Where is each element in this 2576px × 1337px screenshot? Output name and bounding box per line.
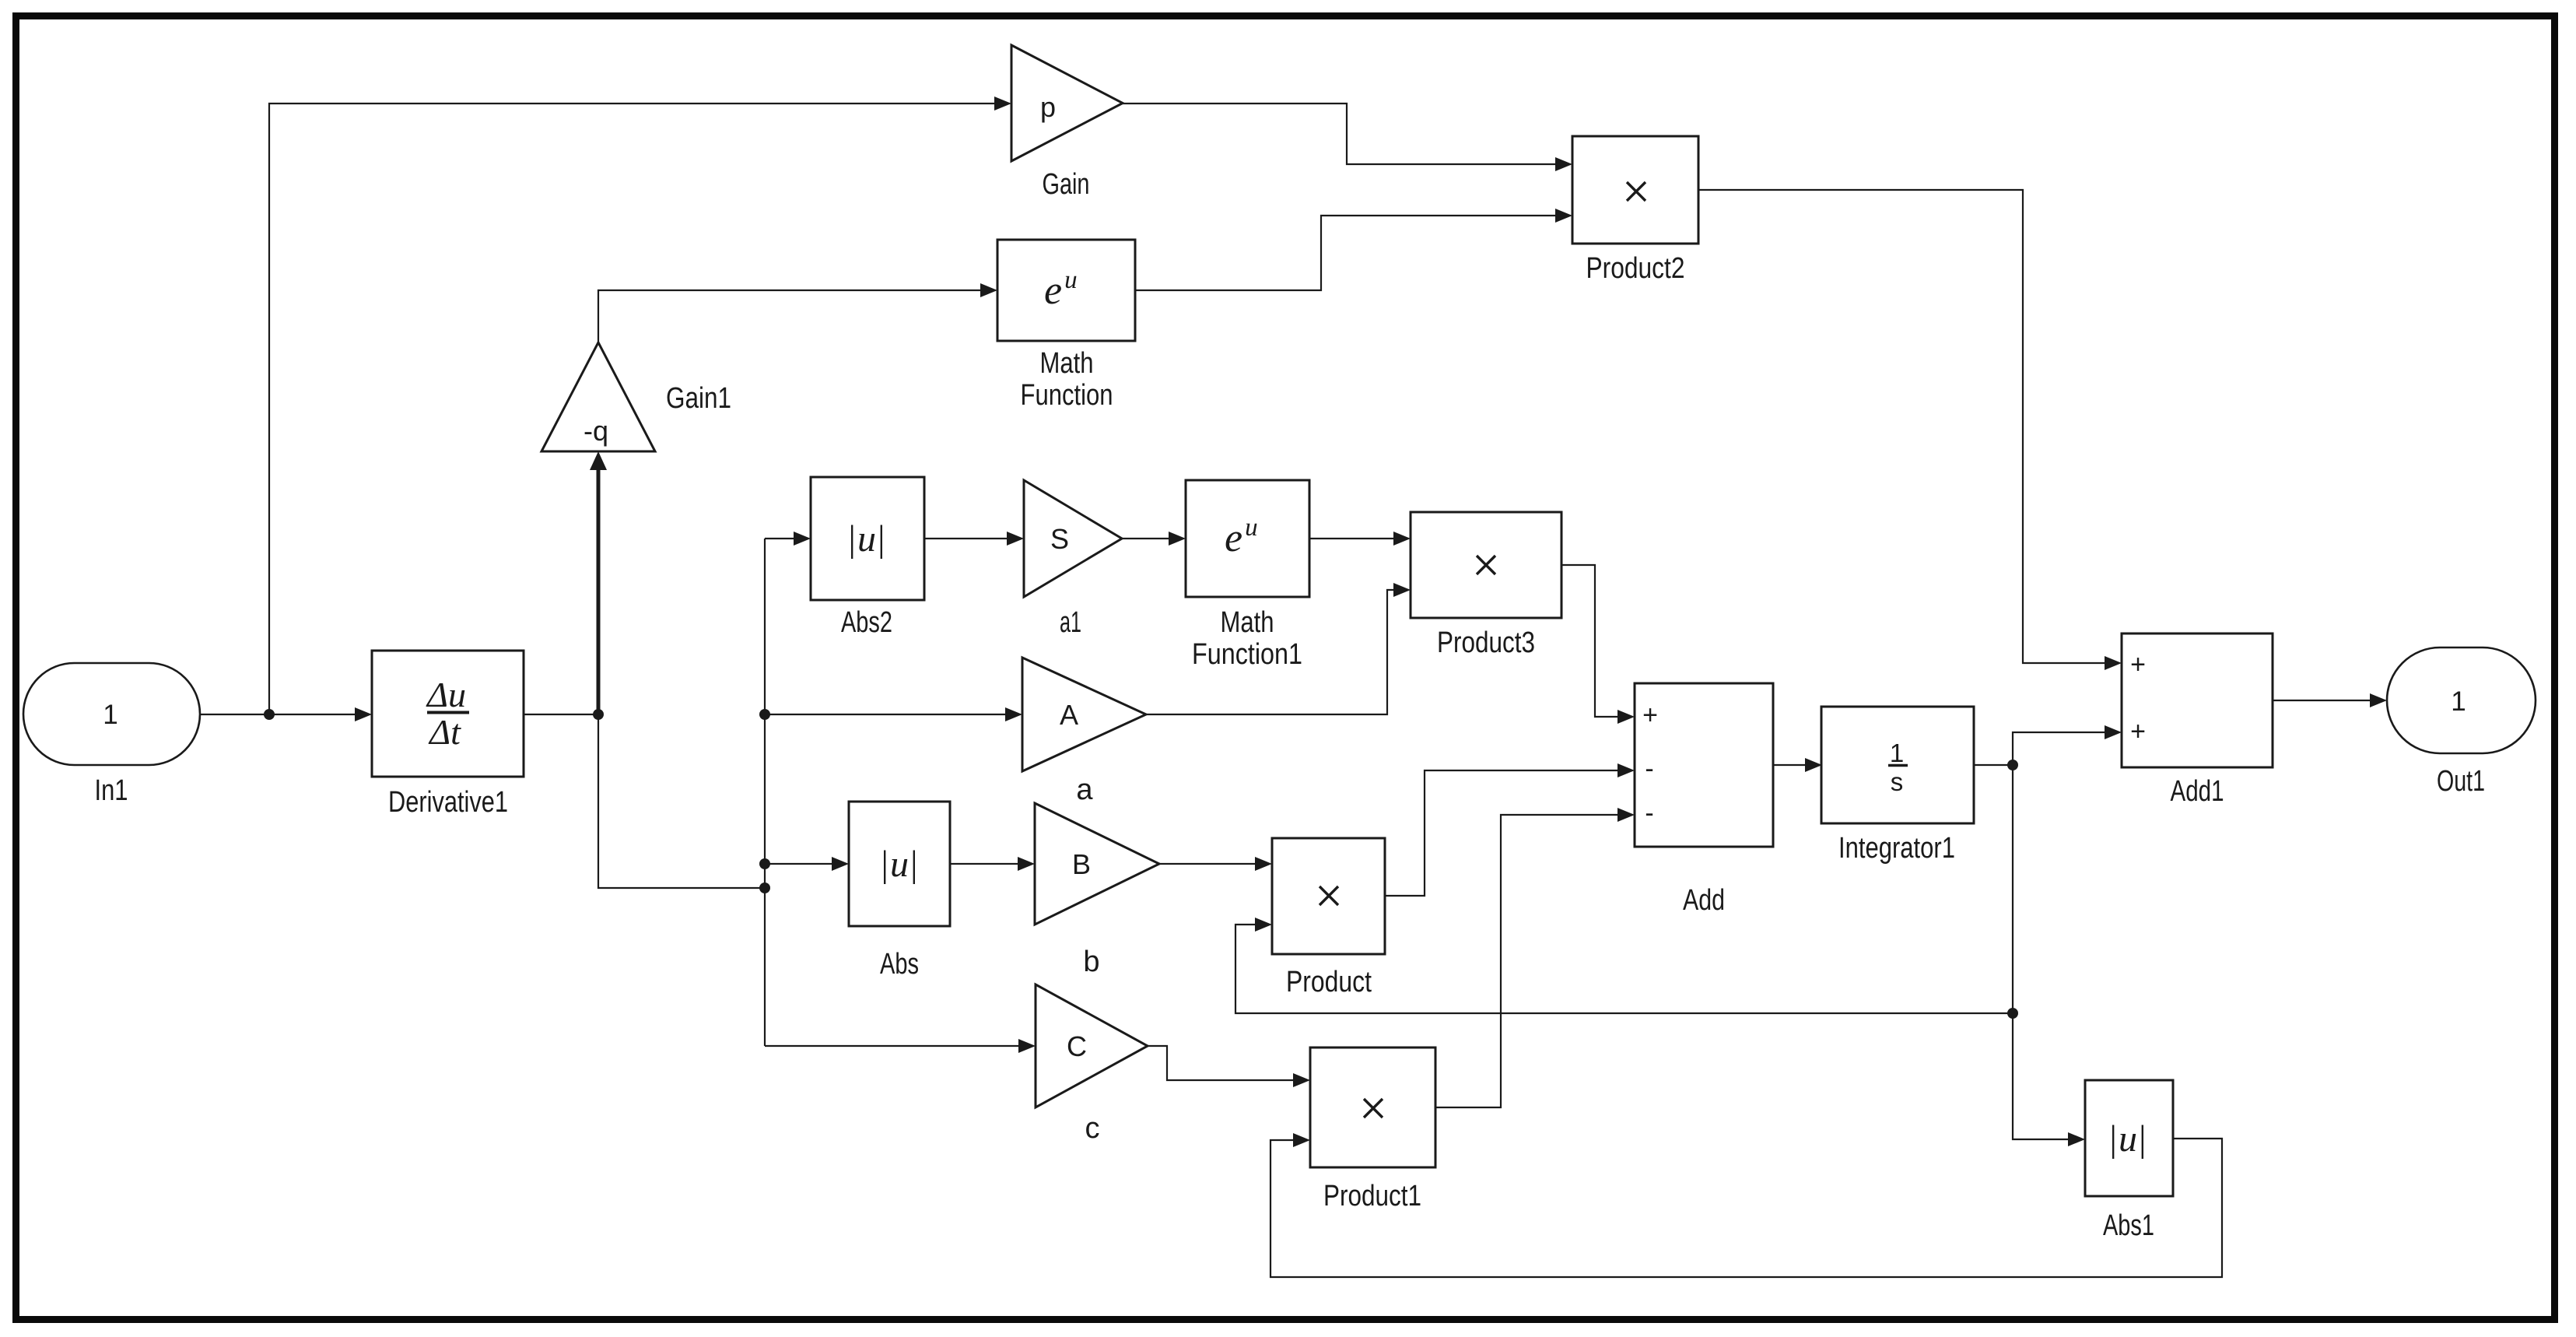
svg-text:s: s [1891,767,1904,796]
svg-text:Derivative1: Derivative1 [388,786,508,819]
svg-text:|u|: |u| [848,518,885,560]
svg-text:-: - [1645,754,1653,784]
wire Product1 to Add [1435,815,1619,1107]
Product1 x symbol [1364,1099,1383,1118]
wire trunk to gain c [765,1045,1020,1047]
wire trunk to Abs2 [765,538,795,539]
svg-text:Abs: Abs [880,948,919,981]
svg-text:Math: Math [1221,606,1274,639]
wire Product3 to Add [1561,565,1619,717]
svg-text:Gain: Gain [1043,168,1090,201]
svg-text:Product1: Product1 [1323,1180,1421,1212]
wire Abs1 feedback to Product1 [1270,1139,2222,1277]
svg-text:S: S [1050,523,1069,555]
svg-text:Add1: Add1 [2171,775,2224,808]
svg-text:-: - [1645,798,1653,828]
Product2 x symbol [1627,182,1645,201]
wire J6 to Add1 [2013,732,2106,765]
block Math Function1 [1186,480,1309,597]
svg-text:+: + [2130,650,2146,679]
output port Out1 [2387,647,2536,753]
gain a1 (S) [1024,480,1122,597]
wire J2 up to Gain1 [597,465,601,714]
block Product3 [1411,512,1561,618]
svg-text:1: 1 [2451,686,2466,717]
block Integrator1 [1821,707,1974,823]
svg-text:Product2: Product2 [1586,252,1685,285]
Product x symbol [1320,886,1338,905]
wire Math Function1 to Product3 [1309,538,1395,539]
svg-text:+: + [2130,717,2146,746]
Product3 x symbol [1477,556,1495,574]
svg-text:Product: Product [1286,966,1372,998]
block Add1 [2122,633,2273,767]
wire Math Function to Product2 [1135,216,1557,290]
wire J1 up to Gain [269,104,997,714]
wire gain c to Product1 [1148,1046,1295,1080]
wire Abs2 to a1 [924,538,1008,539]
svg-text:b: b [1083,946,1099,978]
wire Derivative1 out [524,714,598,715]
svg-text:Δt: Δt [428,712,461,752]
node J2 [593,709,604,720]
wire Add1 to Out1 [2273,700,2371,701]
node J6 [2007,760,2018,770]
svg-text:Abs1: Abs1 [2103,1209,2154,1242]
wire gain b to Product [1159,863,1256,865]
wire J4 to Abs [765,863,833,865]
gain b (B) [1035,803,1159,925]
node J4 [759,858,770,869]
input port In1 [23,663,200,765]
svg-text:|u|: |u| [881,844,917,885]
svg-text:Product3: Product3 [1437,626,1535,659]
svg-text:p: p [1040,91,1056,123]
gain a (A) [1022,658,1146,771]
wire Gain to Product2 [1123,104,1557,164]
svg-text:Add: Add [1683,884,1725,917]
block Add [1635,683,1773,847]
wire gain a to Product3 [1146,590,1395,714]
svg-text:c: c [1085,1112,1100,1145]
wire In1 to Derivative1 [200,714,359,715]
svg-text:Gain1: Gain1 [666,382,731,415]
svg-text:In1: In1 [95,774,128,807]
node J5 [759,883,770,893]
wire Abs to gain b [950,863,1019,865]
svg-text:Math: Math [1040,347,1094,380]
wire Gain1 to Math Function [598,290,982,342]
wire y feedback to Product in2 [1235,925,2013,1013]
wire J3 to gain a [765,714,1007,715]
svg-text:B: B [1072,848,1091,880]
gain c (C) [1036,984,1148,1107]
gain Gain (p) [1011,45,1123,161]
svg-text:Abs2: Abs2 [841,606,892,639]
svg-text:C: C [1067,1030,1087,1062]
block Abs1 [2085,1080,2173,1196]
svg-text:Integrator1: Integrator1 [1838,832,1955,865]
gain Gain1 (-q) [541,342,655,451]
block Abs [849,802,950,926]
block Math Function [997,240,1135,341]
node J7 [2007,1008,2018,1019]
wire Integrator1 out [1974,764,2013,766]
svg-text:+: + [1642,700,1658,730]
wire a1 to Math Function1 [1122,538,1170,539]
block Product [1272,838,1385,954]
wire Product to Add [1385,770,1619,896]
svg-text:-q: -q [584,415,608,447]
svg-text:Out1: Out1 [2437,765,2485,798]
block Abs2 [811,477,924,600]
svg-text:|u|: |u| [2109,1118,2146,1160]
wire trunk vertical [764,539,766,1046]
block Product1 [1310,1047,1435,1167]
block Derivative1 [372,651,524,777]
svg-text:1: 1 [1890,739,1904,767]
wire Product2 to Add1 [1698,190,2106,663]
wire J6 down [2013,765,2070,1139]
svg-text:Function: Function [1021,379,1113,412]
svg-text:Function1: Function1 [1192,638,1302,671]
wire Add to Integrator1 [1773,764,1807,766]
svg-text:a: a [1076,774,1093,806]
svg-text:A: A [1060,699,1078,731]
svg-text:a1: a1 [1060,606,1081,639]
svg-text:Δu: Δu [426,675,466,714]
node J1 [264,709,275,720]
wire J2 down to trunk [598,714,765,888]
node J3 [759,709,770,720]
svg-text:1: 1 [103,700,117,730]
block Product2 [1572,136,1698,244]
